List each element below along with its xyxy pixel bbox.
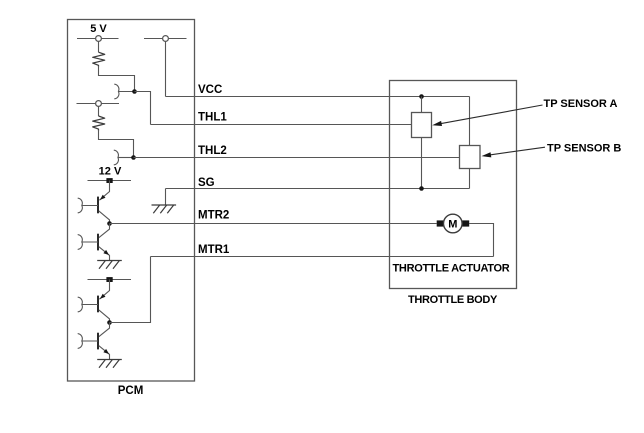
junction dot MTR1 [107,320,112,325]
Q3 base wire [82,304,98,306]
wire junction to THL1 pin [135,92,151,125]
wire VCC [166,96,470,98]
svg-text:VCC: VCC [198,84,222,96]
transistor Q4 base bar [97,333,99,350]
svg-text:THROTTLE BODY: THROTTLE BODY [408,294,498,306]
svg-text:SG: SG [198,177,215,189]
5V rail 3 [77,103,120,105]
throttle body box [390,81,517,289]
arrowhead sensor B [482,152,492,157]
wire SG [166,188,470,190]
Q4 emitter wire [99,346,110,360]
stub curl to junction THL2 [118,157,134,159]
svg-text:5 V: 5 V [90,23,107,35]
svg-text:THROTTLE ACTUATOR: THROTTLE ACTUATOR [393,262,510,274]
junction dot THL2 [131,155,136,160]
wire VCC to sensor A [421,97,423,113]
svg-text:TP SENSOR A: TP SENSOR A [544,98,618,110]
svg-text:MTR1: MTR1 [198,244,230,256]
wire 12V to Q1 emitter [99,181,109,201]
wire SG ground drop [165,189,167,206]
resistor R1 [93,52,105,67]
5V rail 1 [77,38,119,40]
wire circle1 to R1 [98,41,100,52]
junction dot VCC [419,94,424,99]
svg-text:M: M [448,219,457,231]
PCM box [68,20,195,382]
arrowhead sensor A [432,121,442,126]
Q2 emitter wire [99,247,110,261]
Q4 collector wire [99,323,110,337]
5V terminal circle 1 [96,36,102,42]
Q2 emitter arrow (NPN) [103,250,109,255]
Q2 base wire [82,241,98,243]
svg-text:PCM: PCM [118,385,144,397]
12V rail 1 [88,180,132,182]
Q3 emitter arrow (PNP) [100,294,106,299]
connector curl THL1 [115,84,119,99]
wire R2 to node [99,131,134,158]
transistor Q3 base bar [97,296,99,313]
svg-text:MTR2: MTR2 [198,210,229,222]
5V terminal circle 3 [96,101,102,107]
wire motor to MTR1 [469,224,493,257]
motor brush left [437,220,444,226]
connector curl Q2 base [78,235,82,250]
wire VCC to sensor B [469,97,471,146]
wire sensor B to SG [469,169,471,189]
wire MTR2 [110,223,437,225]
Q4 emitter arrow (NPN) [103,349,109,354]
junction dot THL1 [132,89,137,94]
5V rail 2 [144,38,187,40]
Q1 collector wire [99,211,110,224]
motor M1 circle [444,214,463,233]
motor brush right [462,220,469,226]
svg-text:THL2: THL2 [198,145,227,157]
wire THL2 [134,157,460,159]
wire MTR1 [151,256,494,258]
5V terminal circle 2 [163,36,169,42]
leader line sensor A [441,105,543,124]
12V node square 2 [106,277,112,282]
Q3 collector wire [99,310,110,323]
Q1 emitter arrow (PNP) [100,195,106,200]
wire 12V to Q3 emitter [99,280,109,300]
Q4 base wire [82,340,98,342]
transistor Q2 base bar [97,234,99,251]
wire R1 to node [99,67,135,92]
Q1 base wire [82,205,98,207]
12V node square 1 [106,178,112,183]
wire THL1 [151,124,412,126]
ground Q2 [97,260,122,262]
ground Q4 [97,359,122,361]
svg-text:THL1: THL1 [198,112,227,124]
ground SG [152,204,177,206]
connector curl THL2 [114,150,118,165]
junction dot SG [419,186,424,191]
connector curl Q3 base [78,297,82,312]
junction dot MTR2 [107,221,112,226]
wire VCC vertical [165,41,167,96]
wire circle3 to R2 [98,106,100,116]
TP sensor A box [412,113,432,138]
leader line sensor B [490,147,545,155]
connector curl Q1 base [78,198,82,213]
12V rail 2 [88,279,132,281]
wire MTR1 riser [110,257,151,323]
resistor R2 [93,116,105,131]
TP sensor B box [460,146,481,169]
svg-text:TP SENSOR B: TP SENSOR B [547,142,621,154]
Q2 collector wire [99,224,110,238]
wire sensor A to SG [421,138,423,189]
connector curl Q4 base [78,334,82,349]
transistor Q1 base bar [97,197,99,214]
stub curl to junction THL1 [118,91,134,93]
svg-text:12 V: 12 V [99,166,122,178]
